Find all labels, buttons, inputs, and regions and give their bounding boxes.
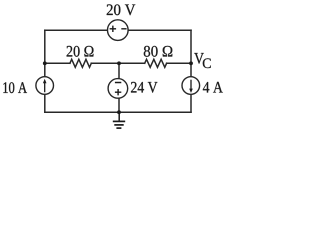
resistor 20 Ohm	[70, 59, 91, 67]
node V_C letter V	[194, 53, 204, 64]
junction node bottom center	[117, 110, 121, 114]
current source 10 A	[36, 77, 54, 95]
label 24 V	[131, 82, 157, 93]
wire top rail	[45, 29, 191, 31]
junction node center middle	[117, 62, 121, 66]
voltage source 20 V	[108, 20, 129, 41]
label 20 V	[107, 4, 136, 15]
wire middle rail center segment	[91, 62, 144, 64]
wire middle vertical	[118, 63, 120, 112]
wire middle rail right segment	[167, 62, 191, 64]
label 10 A	[3, 82, 27, 93]
resistor 80 Ohm	[145, 59, 167, 67]
label 80 Ohm	[144, 46, 173, 57]
junction node left middle	[43, 62, 47, 66]
wire left vertical	[44, 30, 46, 112]
voltage source 24 V	[108, 79, 128, 99]
label 20 Ohm	[67, 46, 94, 57]
label 4 A	[203, 82, 223, 93]
wire bottom rail	[45, 111, 191, 113]
wire right vertical	[190, 30, 192, 112]
current source 4 A	[182, 77, 200, 95]
wire middle rail left segment	[45, 62, 70, 64]
ground	[113, 112, 125, 128]
node V_C subscript C	[203, 58, 211, 68]
junction node right middle	[189, 62, 193, 66]
